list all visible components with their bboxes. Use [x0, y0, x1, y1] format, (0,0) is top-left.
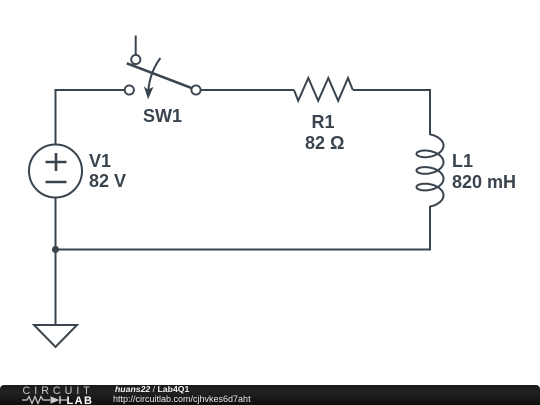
switch SW1 stub wire	[135, 36, 137, 55]
circuitlab logo CIRCUIT text	[23, 386, 94, 397]
V1 plus sign	[46, 153, 67, 182]
circuitlab logo resistor+diode glyph and LAB	[22, 395, 97, 405]
voltage source V1 circle	[29, 145, 82, 198]
wire: V1 bottom to ground	[55, 198, 57, 325]
ground	[34, 325, 77, 347]
label 82 V	[89, 172, 126, 190]
footer bar	[0, 385, 540, 405]
switch SW1 right terminal	[191, 85, 200, 94]
label L1	[452, 152, 473, 170]
label 82 ohm	[305, 134, 344, 152]
wire: resistor to top-right corner down to inductor	[353, 90, 430, 135]
switch SW1 actuation arc arrow	[148, 58, 160, 90]
label SW1	[143, 107, 182, 125]
node junction dot	[52, 246, 59, 253]
wire: switch right terminal to resistor	[201, 89, 294, 91]
footer text line 2	[113, 395, 251, 404]
inductor L1 coil	[417, 134, 444, 206]
V1 minus sign	[46, 181, 67, 184]
switch SW1 lever	[127, 63, 192, 88]
label R1	[312, 113, 335, 131]
switch SW1 top terminal	[131, 55, 140, 64]
switch SW1 left terminal	[125, 85, 134, 94]
wire top-left: V1 top to switch left terminal	[56, 90, 125, 144]
footer text line 1	[115, 385, 189, 394]
label 820 mH	[452, 173, 516, 191]
wire: inductor bottom to bottom-right corner to junction	[56, 206, 431, 250]
resistor R1 zigzag	[294, 78, 353, 101]
label V1	[89, 152, 111, 170]
